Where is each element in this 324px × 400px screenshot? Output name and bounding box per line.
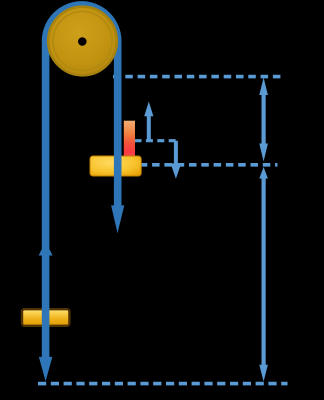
block m1 (left mass) [22,309,69,326]
pulley disc [48,7,117,76]
dimension line upper segment (pulley level to block level) [259,78,268,162]
candle on block m2 [124,121,135,158]
rope over pulley (arc) [46,5,118,41]
dashed reference line: floor level [38,382,288,386]
dimension line lower segment (block level to floor) [259,167,268,382]
dashed reference line: pulley bottom level [113,75,285,79]
motion arrowhead up on left rope [39,242,53,256]
small dimension arrow up (candle rise) [144,102,153,141]
small dimension arrow down (to block level) [171,141,182,179]
dashed reference line: block m2 level [140,163,278,167]
rope right segment [114,40,122,207]
block m2 (right mass) [90,156,141,176]
dashed reference line: candle mark level [135,139,177,142]
motion arrowhead down on right rope [111,205,124,233]
pulley axle dot [78,37,87,46]
arrowhead down at floor on left rope [39,357,53,381]
rope left segment [42,40,50,358]
